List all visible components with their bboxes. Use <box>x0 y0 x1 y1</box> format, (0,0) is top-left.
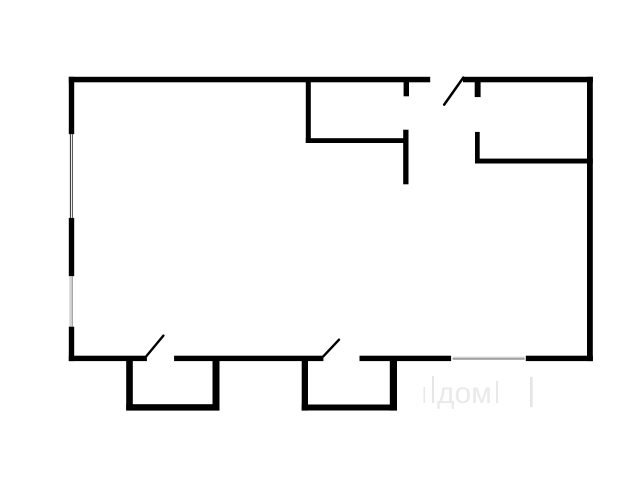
wall left lower segment <box>69 327 74 361</box>
window W3 gray pane dark edge <box>453 358 525 359</box>
balcony B1 bottom wall <box>126 404 219 410</box>
window W2 gray pane dark edge <box>72 276 73 327</box>
interior wall H2 <box>475 159 593 164</box>
watermark bar 4 <box>530 377 533 407</box>
interior wall V2 stub <box>404 82 409 96</box>
window W1 inner line <box>72 134 73 218</box>
door D1 leaf entrance <box>444 78 463 105</box>
wall bottom-left segment <box>69 356 147 361</box>
balcony B2 left wall <box>302 361 308 411</box>
balcony B1 right wall <box>213 361 220 411</box>
svg-text:дом: дом <box>437 377 492 410</box>
wall left middle segment <box>69 218 74 276</box>
interior wall V3 stub <box>475 82 481 97</box>
watermark bar 3 <box>496 381 498 403</box>
wall top-left segment <box>69 77 430 83</box>
balcony B1 left wall <box>126 361 133 411</box>
interior wall V1 <box>306 82 311 143</box>
interior wall V3 lower <box>475 132 480 164</box>
interior wall H1 <box>306 138 409 143</box>
wall bottom-middle-right segment <box>360 356 452 361</box>
wall left upper segment <box>69 77 74 134</box>
interior wall V2 lower <box>403 130 408 185</box>
window W1 outer line <box>70 134 71 218</box>
watermark bar 2 <box>432 376 434 403</box>
balcony B2 bottom wall <box>302 405 397 411</box>
wall bottom-right segment <box>526 356 593 361</box>
wall bottom-middle-left segment <box>174 356 323 361</box>
window W3 gray pane light <box>453 357 525 359</box>
door D2 leaf balcony1 <box>147 336 164 356</box>
wall right segment <box>587 77 593 361</box>
window W2 gray pane light <box>69 276 72 327</box>
balcony B2 right wall <box>390 361 397 411</box>
wall top-right segment <box>463 77 593 83</box>
watermark bar 1 <box>424 387 426 403</box>
door D3 leaf balcony2 <box>323 340 339 357</box>
